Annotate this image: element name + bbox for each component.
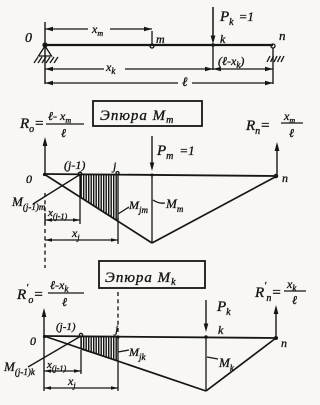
Mk diagram right edge <box>206 338 276 391</box>
svg-text:0: 0 <box>25 31 32 46</box>
label Mk with leader <box>207 355 235 373</box>
ground hatching left support <box>34 57 58 63</box>
reaction arrow R'o <box>42 308 47 336</box>
Mm ordinate line <box>151 174 153 243</box>
baseline 0-n middle <box>44 174 277 176</box>
junction dot 0 bottom <box>43 335 46 338</box>
svg-text:k: k <box>218 323 224 337</box>
dimension l overall <box>45 74 273 89</box>
leader line to M(j-1)k <box>28 336 81 367</box>
reaction arrow Rn <box>275 142 280 175</box>
svg-text:ℓ: ℓ <box>182 74 188 89</box>
svg-text:ℓ: ℓ <box>61 126 66 140</box>
svg-text:n: n <box>282 171 288 185</box>
force Pm arrow <box>150 136 155 171</box>
svg-text:ℓ: ℓ <box>62 295 67 309</box>
force Pk arrow <box>211 7 216 44</box>
node n dot bottom <box>274 336 278 340</box>
label Mm with leader <box>153 196 184 214</box>
dimension x(j-1) middle <box>45 196 80 224</box>
beam 0-n <box>45 44 273 46</box>
title box Epyura Mk <box>99 261 205 288</box>
svg-text:m: m <box>156 32 165 46</box>
node m circle <box>150 44 154 48</box>
reaction arrow Ro <box>43 137 48 174</box>
node k dot bottom <box>204 335 208 339</box>
node j dot bottom <box>116 335 119 338</box>
wire left extension vertical at support 0 <box>44 22 46 84</box>
dimension x_k <box>45 60 213 76</box>
reaction formula Ro <box>19 109 84 140</box>
node (j-1) circle middle <box>78 172 82 176</box>
node m tick <box>151 31 153 44</box>
Mm diagram left edge <box>44 174 152 243</box>
Mm diagram right edge <box>152 176 277 243</box>
svg-text:(j-1): (j-1) <box>64 158 85 172</box>
svg-text:Эпюра Мk: Эпюра Мk <box>105 270 177 288</box>
left axis extension bottom <box>43 336 45 391</box>
svg-text:n: n <box>281 336 287 350</box>
dimension (l-x_k) <box>213 54 273 71</box>
svg-text:Эпюра Мm: Эпюра Мm <box>100 108 174 126</box>
label Mjk with leader <box>118 345 147 362</box>
svg-text:ℓ: ℓ <box>292 293 297 307</box>
dashed projection line at 0 <box>44 193 46 268</box>
label Mjm with leader <box>118 198 149 215</box>
svg-text:0: 0 <box>26 172 32 186</box>
node j dot middle <box>116 172 119 175</box>
leader line to M(j-1)m <box>33 175 80 205</box>
Mk diagram left edge <box>44 336 206 391</box>
wire extension at k <box>212 45 214 70</box>
reaction formula R'o <box>16 278 84 309</box>
reaction formula R'n <box>254 277 306 307</box>
baseline 0-n bottom <box>44 336 276 338</box>
junction dot Pm baseline <box>151 174 154 177</box>
svg-text:n: n <box>279 28 286 43</box>
node n circle <box>271 44 275 48</box>
node (j-1) circle bottom <box>79 333 82 336</box>
wire extension at n <box>272 48 274 84</box>
Mk ordinate line <box>205 337 207 391</box>
reaction formula Rn <box>245 109 303 140</box>
roller support hatching at n <box>267 56 284 62</box>
svg-text:(j-1): (j-1) <box>56 321 76 333</box>
hatched strip (j-1)-j on Mm <box>80 175 118 222</box>
dimension x_j middle <box>45 218 118 244</box>
support pin at 0 <box>39 46 52 56</box>
dashed projection j from box <box>117 292 119 333</box>
svg-text:ℓ: ℓ <box>289 126 294 140</box>
dimension x_m <box>45 22 152 38</box>
pin joint dot at 0 <box>42 42 47 47</box>
dimension x(j-1) bottom <box>44 350 81 374</box>
reaction arrow R'n <box>274 305 279 337</box>
dimension x_j bottom <box>44 362 118 391</box>
node k dot <box>211 43 215 47</box>
svg-text:0: 0 <box>30 334 36 348</box>
svg-text:k: k <box>220 32 226 46</box>
hatched strip (j-1)-j on Mk <box>81 337 118 362</box>
junction dot 0 middle <box>43 173 46 176</box>
node n dot middle <box>274 174 277 177</box>
title box Epyura Mm <box>93 101 202 126</box>
force Pk arrow bottom <box>204 300 209 332</box>
svg-text:(ℓ-xk): (ℓ-xk) <box>218 54 244 70</box>
